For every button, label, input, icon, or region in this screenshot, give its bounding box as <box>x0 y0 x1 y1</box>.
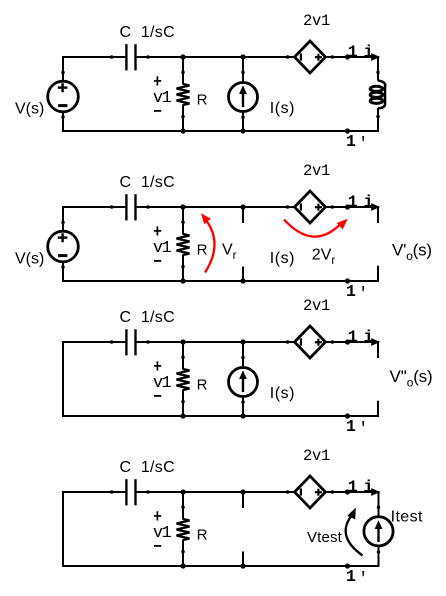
current source Itest <box>364 517 393 546</box>
capacitor C plates <box>126 329 135 355</box>
wire top segment right <box>327 206 380 208</box>
wire I(s) upper lead <box>242 57 244 83</box>
node dot resistor top <box>180 339 185 344</box>
label v1 minus <box>154 110 161 112</box>
wire resistor upper lead <box>182 342 184 370</box>
pin tick diamond right <box>331 490 335 494</box>
voltage source V(s) <box>48 81 79 112</box>
wire left <box>62 491 64 567</box>
circuit 2: V(s) acting alone, open-circuit output <box>15 162 432 303</box>
label v1 minus <box>154 260 161 262</box>
wire resistor upper lead <box>182 492 184 520</box>
open stub where I(s) removed, bottom <box>242 552 244 567</box>
wire left lower lead <box>62 262 64 282</box>
svg-text:v1: v1 <box>153 524 172 543</box>
wire inductor lower lead <box>377 108 379 131</box>
svg-text:v1: v1 <box>153 239 172 258</box>
node dot resistor bottom <box>180 278 185 283</box>
svg-text:2v1: 2v1 <box>303 297 330 315</box>
wire top segment left <box>62 341 126 343</box>
wire top segment right <box>327 341 380 343</box>
pin tick V(s) top <box>61 71 65 75</box>
node dot resistor top <box>180 204 185 209</box>
wire top segment right <box>327 491 380 493</box>
wire Itest lower lead <box>378 547 380 567</box>
node 1' dot <box>345 563 350 568</box>
svg-text:1: 1 <box>348 43 358 62</box>
svg-text:1: 1 <box>348 478 358 497</box>
circuit 3: I(s) acting alone, open-circuit output <box>62 297 432 438</box>
node dot resistor top <box>180 489 185 494</box>
wire top segment middle <box>136 206 293 208</box>
svg-text:C 1/sC: C 1/sC <box>120 309 175 326</box>
svg-text:v1: v1 <box>153 89 172 108</box>
pin tick R top <box>181 70 185 74</box>
dependent source E1 diamond <box>295 476 326 508</box>
pin tick diamond left <box>286 490 290 494</box>
wire I(s) upper lead <box>242 342 244 368</box>
arrow for current i <box>371 203 380 211</box>
node dot I top <box>240 489 245 494</box>
svg-text:1: 1 <box>348 193 358 212</box>
node dot resistor bottom <box>180 413 185 418</box>
svg-text:Vr: Vr <box>222 242 237 263</box>
svg-text:1': 1' <box>346 417 368 438</box>
resistor R zigzag <box>177 369 190 390</box>
svg-text:V'o(s): V'o(s) <box>392 240 432 262</box>
wire top segment left <box>62 206 126 208</box>
pin tick I top <box>241 71 245 75</box>
arrow for current i <box>371 488 380 496</box>
current source I(s) <box>229 83 258 112</box>
pin tick diamond right <box>331 340 335 344</box>
dependent source E1 diamond <box>295 326 326 358</box>
svg-text:Itest: Itest <box>391 508 423 525</box>
pin tick diamond right <box>331 205 335 209</box>
pin tick I bottom <box>241 115 245 119</box>
pin tick capacitor right <box>146 205 150 209</box>
node dot I top <box>240 339 245 344</box>
pin tick capacitor right <box>146 55 150 59</box>
node dot I bottom <box>240 128 245 133</box>
wire inductor upper lead <box>377 57 379 81</box>
resistor R zigzag <box>177 519 190 540</box>
node dot I top <box>240 204 245 209</box>
wire resistor upper lead <box>182 57 184 85</box>
node 1 dot <box>345 339 350 344</box>
pin tick I bottom <box>241 400 245 404</box>
pin tick diamond left <box>286 55 290 59</box>
node 1' dot <box>345 413 350 418</box>
node dot I bottom <box>240 563 245 568</box>
pin tick diamond left <box>286 340 290 344</box>
pin tick capacitor right <box>146 490 150 494</box>
svg-text:1': 1' <box>346 132 368 153</box>
wire resistor lower lead <box>182 255 184 282</box>
pin tick V(s) bottom <box>61 115 65 119</box>
node 1 dot <box>345 54 350 59</box>
label v1 plus <box>154 226 161 235</box>
wire Itest upper lead <box>378 491 380 518</box>
capacitor C plates <box>126 194 135 220</box>
svg-text:R: R <box>197 92 208 109</box>
label v1 plus <box>154 76 161 85</box>
svg-text:1': 1' <box>346 282 368 303</box>
pin tick R bottom <box>181 550 185 554</box>
svg-text:R: R <box>197 377 208 394</box>
svg-text:I(s): I(s) <box>270 100 295 117</box>
pin tick L top <box>376 71 380 75</box>
red arrow Vr <box>205 222 215 273</box>
open stub right top <box>377 206 379 223</box>
wire left upper lead <box>62 56 64 82</box>
open stub where I(s) removed, bottom <box>242 267 244 282</box>
svg-text:V(s): V(s) <box>15 101 44 118</box>
pin tick V(s) bottom <box>61 265 65 269</box>
open stub where I(s) removed, top <box>242 492 244 508</box>
open stub right top <box>377 341 379 358</box>
wire left lower lead <box>62 112 64 132</box>
resistor R zigzag <box>177 84 190 105</box>
node dot I top <box>240 54 245 59</box>
svg-text:2v1: 2v1 <box>303 447 330 465</box>
pin tick R top <box>181 220 185 224</box>
svg-text:C 1/sC: C 1/sC <box>120 174 175 191</box>
current source I(s) <box>229 368 258 397</box>
pin tick R bottom <box>181 400 185 404</box>
pin tick Itest top <box>377 506 381 510</box>
label v1 minus <box>154 395 161 397</box>
voltage source V(s) <box>48 231 79 262</box>
pin tick capacitor left <box>110 340 114 344</box>
svg-text:1': 1' <box>346 567 368 588</box>
label v1 plus <box>154 511 161 520</box>
wire resistor lower lead <box>182 390 184 417</box>
node dot resistor top <box>180 54 185 59</box>
pin tick diamond left <box>286 205 290 209</box>
svg-text:2Vr: 2Vr <box>312 247 336 268</box>
svg-text:Vtest: Vtest <box>307 529 343 546</box>
node 1 dot <box>345 204 350 209</box>
wire top segment middle <box>136 56 293 58</box>
svg-text:I(s): I(s) <box>270 250 295 267</box>
wire top segment left <box>62 56 126 58</box>
wire top segment middle <box>136 341 293 343</box>
svg-text:R: R <box>197 527 208 544</box>
dependent source E1 diamond <box>295 41 326 73</box>
svg-text:V''o(s): V''o(s) <box>390 367 433 390</box>
pin tick L bottom <box>376 115 380 119</box>
node dot resistor bottom <box>180 128 185 133</box>
pin tick Itest bottom <box>377 550 381 554</box>
svg-text:C 1/sC: C 1/sC <box>120 24 175 41</box>
label v1 minus <box>154 545 161 547</box>
pin tick capacitor left <box>110 490 114 494</box>
node 1' dot <box>345 128 350 133</box>
wire left upper lead <box>62 206 64 232</box>
wire top segment left <box>62 491 126 493</box>
node dot I bottom <box>240 278 245 283</box>
pin tick capacitor left <box>110 55 114 59</box>
red arrow 2Vr <box>284 220 340 237</box>
pin tick R bottom <box>181 115 185 119</box>
wire I(s) lower lead <box>242 397 244 417</box>
inductor coil <box>370 81 385 109</box>
open stub right bottom <box>377 266 379 282</box>
pin tick R top <box>181 505 185 509</box>
pin tick V(s) top <box>61 221 65 225</box>
open stub right bottom <box>377 401 379 417</box>
circuit 4: test source for Thevenin resistance <box>62 447 423 588</box>
svg-text:I(s): I(s) <box>270 385 295 402</box>
arrow for current i <box>371 53 380 61</box>
circuit 1: original circuit with inductor load <box>15 12 385 153</box>
wire left <box>62 341 64 417</box>
svg-text:2v1: 2v1 <box>303 12 330 30</box>
pin tick R bottom <box>181 265 185 269</box>
svg-text:2v1: 2v1 <box>303 162 330 180</box>
node dot resistor bottom <box>180 563 185 568</box>
svg-text:1: 1 <box>348 328 358 347</box>
node 1' dot <box>345 278 350 283</box>
resistor R zigzag <box>177 234 190 255</box>
wire bottom <box>62 415 379 417</box>
black arrow Vtest <box>346 515 363 556</box>
node 1 dot <box>345 489 350 494</box>
pin tick diamond right <box>331 55 335 59</box>
wire resistor lower lead <box>182 540 184 567</box>
capacitor C plates <box>126 44 135 70</box>
wire top segment middle <box>136 491 293 493</box>
dependent source E1 diamond <box>295 191 326 223</box>
wire bottom <box>62 280 379 282</box>
pin tick capacitor left <box>110 205 114 209</box>
pin tick I top <box>241 356 245 360</box>
svg-text:R: R <box>197 242 208 259</box>
wire bottom <box>62 565 379 567</box>
svg-text:C 1/sC: C 1/sC <box>120 459 175 476</box>
wire top segment right <box>327 56 380 58</box>
open stub where I(s) removed, top <box>242 207 244 223</box>
pin tick R top <box>181 355 185 359</box>
svg-text:V(s): V(s) <box>15 251 44 268</box>
pin tick capacitor right <box>146 340 150 344</box>
wire resistor upper lead <box>182 207 184 235</box>
wire bottom <box>62 130 379 132</box>
svg-text:v1: v1 <box>153 374 172 393</box>
arrow for current i <box>371 338 380 346</box>
capacitor C plates <box>126 479 135 505</box>
node dot I bottom <box>240 413 245 418</box>
wire I(s) lower lead <box>242 112 244 132</box>
label v1 plus <box>154 361 161 370</box>
wire resistor lower lead <box>182 105 184 132</box>
